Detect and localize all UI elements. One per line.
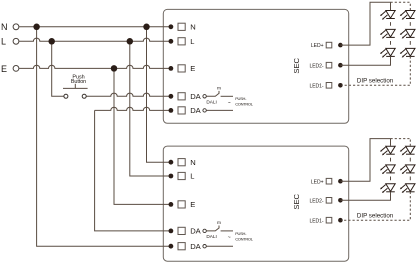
svg-text:DIP selection: DIP selection	[357, 213, 394, 220]
svg-text:~: ~	[228, 101, 231, 107]
svg-text:CONTROL: CONTROL	[235, 236, 254, 241]
svg-text:L: L	[190, 37, 194, 46]
svg-text:E: E	[190, 64, 195, 73]
svg-text:E: E	[1, 64, 7, 74]
svg-text:DALI: DALI	[206, 100, 216, 105]
svg-text:SEC: SEC	[292, 57, 301, 73]
svg-text:m: m	[217, 86, 221, 91]
svg-text:L: L	[1, 37, 6, 47]
svg-text:DA: DA	[190, 242, 201, 251]
svg-text:DALI: DALI	[206, 234, 216, 239]
svg-text:SEC: SEC	[292, 193, 301, 209]
svg-text:LED2-: LED2-	[309, 198, 323, 204]
svg-text:LED1-: LED1-	[309, 218, 323, 224]
svg-text:L: L	[190, 172, 194, 181]
svg-text:LED+: LED+	[311, 43, 324, 49]
svg-text:DA: DA	[190, 92, 201, 101]
svg-text:m: m	[217, 221, 221, 226]
svg-text:LED1-: LED1-	[309, 83, 323, 89]
svg-text:PUSH-: PUSH-	[235, 96, 247, 101]
svg-text:N: N	[190, 23, 195, 32]
svg-text:DA: DA	[190, 106, 201, 115]
svg-text:E: E	[190, 200, 195, 209]
svg-text:CONTROL: CONTROL	[235, 102, 254, 107]
svg-text:LED2-: LED2-	[309, 63, 323, 69]
svg-text:N: N	[190, 158, 195, 167]
svg-text:PUSH-: PUSH-	[235, 231, 247, 236]
svg-text:~: ~	[228, 235, 231, 241]
svg-text:DIP selection: DIP selection	[357, 78, 394, 85]
svg-text:LED+: LED+	[311, 179, 324, 185]
svg-text:DA: DA	[190, 227, 201, 236]
svg-text:Button: Button	[71, 79, 86, 85]
svg-text:N: N	[1, 22, 8, 32]
